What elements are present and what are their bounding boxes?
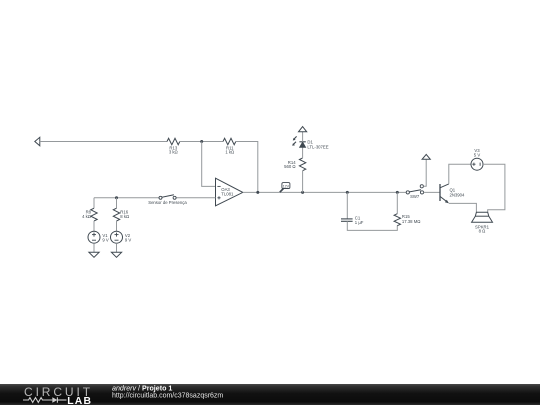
svg-text:LAB: LAB bbox=[67, 396, 92, 405]
footer url line bbox=[112, 393, 223, 400]
svg-text:TL081: TL081 bbox=[221, 192, 234, 197]
wire R13 to R11 bbox=[180, 141, 223, 143]
footer bar bbox=[0, 384, 540, 405]
svg-text:1 µF: 1 µF bbox=[355, 220, 364, 225]
wire R14 to LED bbox=[302, 147, 304, 158]
source V2 bbox=[111, 231, 132, 243]
wire R15 top bbox=[396, 192, 398, 213]
node A : left net-flag arrow bbox=[35, 137, 40, 146]
wire op-amp output rail bbox=[243, 191, 406, 193]
ground left bbox=[89, 252, 99, 257]
wire R16 to V2 bbox=[116, 221, 118, 231]
wire Q1 emitter to speaker left bbox=[449, 203, 477, 212]
junction left rail bbox=[115, 196, 118, 199]
wire top feedback left bbox=[40, 141, 167, 143]
wire R8 to V1 bbox=[93, 221, 95, 231]
wire Q1 collector to V3 bbox=[449, 164, 471, 184]
wire C1 top bbox=[346, 192, 348, 219]
resistor R14 bbox=[284, 158, 306, 171]
wire LED branch bbox=[302, 171, 304, 192]
footer logo LAB bbox=[67, 396, 92, 405]
speaker SPKR1 bbox=[472, 212, 493, 233]
svg-text:12V: 12V bbox=[283, 184, 290, 188]
ground right bbox=[111, 252, 121, 257]
junction R15 branch bbox=[396, 191, 399, 194]
wire SW7 up throw to VCC bbox=[423, 159, 426, 186]
source V1 bbox=[88, 231, 109, 243]
wire V3 to speaker right bbox=[483, 164, 505, 212]
svg-text:andrerv / Projeto 1: andrerv / Projeto 1 bbox=[112, 385, 172, 393]
footer logo resistor-diode line bbox=[23, 397, 67, 402]
transistor Q1 bbox=[440, 184, 465, 203]
junction top bbox=[200, 140, 203, 143]
wire V2 to ground bbox=[116, 243, 118, 252]
svg-text:560 Ω: 560 Ω bbox=[284, 164, 295, 169]
wire V1 to ground bbox=[93, 243, 95, 252]
wire SW7 to Q1 base bbox=[424, 191, 440, 193]
wire left rail to sensor switch bbox=[94, 197, 159, 199]
resistor R13 bbox=[167, 138, 180, 154]
wire R11 to output node bbox=[236, 142, 258, 193]
svg-text:8 kΩ: 8 kΩ bbox=[120, 214, 129, 219]
junction output feedback bbox=[256, 191, 259, 194]
svg-text:9 V: 9 V bbox=[102, 238, 109, 243]
resistor R15 bbox=[394, 214, 420, 226]
junction C1 branch bbox=[346, 191, 349, 194]
wire C1 bottom loop to R15 bbox=[347, 221, 397, 230]
svg-text:http://circuitlab.com/c378sazq: http://circuitlab.com/c378sazqsr6zm bbox=[112, 393, 223, 400]
op-amp OA3 bbox=[216, 178, 243, 206]
wire left branch down bbox=[93, 198, 95, 208]
wire junction to op-amp minus input bbox=[202, 142, 216, 187]
resistor R8 bbox=[82, 208, 97, 221]
svg-text:LTL-307EE: LTL-307EE bbox=[307, 144, 328, 149]
svg-text:4 kΩ: 4 kΩ bbox=[82, 214, 91, 219]
svg-text:8 Ω: 8 Ω bbox=[479, 229, 486, 234]
power VCC arrow right bbox=[422, 154, 430, 159]
switch Sensor de Presenca bbox=[148, 195, 187, 205]
footer logo CIRCUIT bbox=[24, 385, 93, 399]
svg-text:3 kΩ: 3 kΩ bbox=[169, 149, 178, 154]
svg-text:1 kΩ: 1 kΩ bbox=[225, 149, 234, 154]
svg-text:17.38 MΩ: 17.38 MΩ bbox=[402, 219, 421, 224]
svg-text:SW7: SW7 bbox=[410, 194, 420, 199]
wire plus-input from sensor switch bbox=[176, 197, 215, 199]
svg-text:9 V: 9 V bbox=[125, 238, 132, 243]
wire LED to VCC arrow bbox=[302, 132, 304, 142]
resistor R16 bbox=[113, 208, 129, 221]
source V3 bbox=[471, 148, 483, 170]
footer title line bbox=[112, 385, 172, 393]
junction LED branch bbox=[301, 191, 304, 194]
node 12V flag bbox=[280, 183, 290, 193]
svg-text:Sensor de Presença: Sensor de Presença bbox=[148, 200, 187, 205]
LED D1 bbox=[292, 136, 329, 149]
svg-text:5 V: 5 V bbox=[474, 153, 481, 158]
capacitor C1 bbox=[341, 216, 364, 225]
svg-text:2N3904: 2N3904 bbox=[450, 192, 466, 197]
switch SW7 bbox=[406, 185, 423, 200]
wire second branch down bbox=[116, 198, 118, 208]
power VCC arrow top bbox=[299, 127, 307, 132]
resistor R11 bbox=[223, 138, 236, 154]
